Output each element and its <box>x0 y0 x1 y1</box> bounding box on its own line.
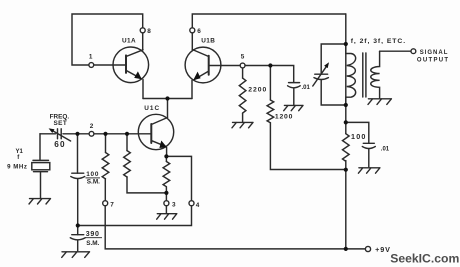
svg-text:8: 8 <box>147 28 151 35</box>
svg-text:f: f <box>17 155 20 161</box>
svg-text:4: 4 <box>196 202 200 209</box>
svg-text:100: 100 <box>351 132 367 141</box>
svg-text:9 MHz: 9 MHz <box>7 163 27 170</box>
svg-text:100: 100 <box>86 171 99 178</box>
svg-text:SIGNAL: SIGNAL <box>420 50 449 56</box>
svg-text:1200: 1200 <box>275 114 293 121</box>
svg-text:7: 7 <box>110 202 114 209</box>
svg-text:1: 1 <box>89 54 93 61</box>
svg-text:S.M.: S.M. <box>86 240 99 247</box>
svg-text:Y1: Y1 <box>16 149 24 155</box>
svg-text:.01: .01 <box>302 85 311 91</box>
svg-text:U1B: U1B <box>201 38 215 45</box>
svg-text:390: 390 <box>86 231 100 238</box>
svg-text:U1A: U1A <box>122 38 136 45</box>
svg-text:.01: .01 <box>381 147 390 153</box>
svg-text:SET: SET <box>54 120 68 127</box>
svg-text:60: 60 <box>54 140 66 149</box>
svg-text:6: 6 <box>197 28 201 35</box>
svg-text:SeekIC.com: SeekIC.com <box>390 251 459 265</box>
svg-text:U1C: U1C <box>144 105 160 112</box>
svg-text:2: 2 <box>90 123 94 130</box>
svg-text:2200: 2200 <box>248 87 267 94</box>
svg-text:S.M.: S.M. <box>87 178 100 185</box>
svg-text:f, 2f, 3f, ETC.: f, 2f, 3f, ETC. <box>351 38 406 45</box>
svg-text:+9V: +9V <box>375 245 391 254</box>
svg-text:3: 3 <box>172 202 176 209</box>
svg-text:5: 5 <box>241 54 245 61</box>
svg-text:OUTPUT: OUTPUT <box>417 57 449 63</box>
